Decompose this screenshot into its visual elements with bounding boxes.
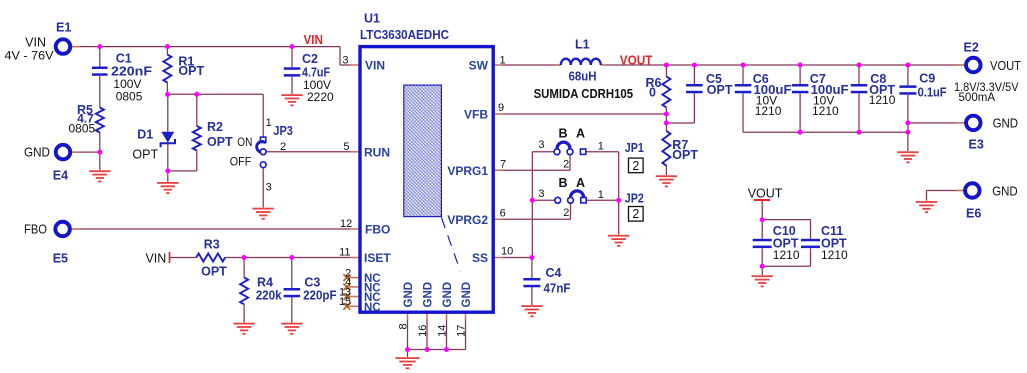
capacitor C5 OPT <box>686 72 733 97</box>
capacitor C1 220nF <box>92 52 152 104</box>
capacitor C9 0.1uF <box>899 71 947 99</box>
pin stub NC pin 15 with no-connect X <box>345 305 360 307</box>
junction JP2 pin3 net <box>530 198 535 203</box>
pin stub VPRG2 pin 6 <box>493 218 503 220</box>
svg-text:17: 17 <box>455 325 467 337</box>
svg-text:OPT: OPT <box>132 147 158 161</box>
wire C3 column <box>291 258 293 289</box>
wire VPRG2 pin 6 to JP2 pin 2 <box>502 218 571 220</box>
svg-text:C1: C1 <box>116 52 132 66</box>
wire VOUT rail L1 to E2 <box>601 64 967 66</box>
ground at E6 <box>916 201 937 203</box>
junction VOUT rail at C5 <box>692 63 697 68</box>
svg-text:220pF: 220pF <box>303 288 337 302</box>
wire C10/C11 top rail <box>762 219 810 221</box>
svg-text:E6: E6 <box>966 207 981 221</box>
wire D1 cathode to bottom rail <box>167 143 169 171</box>
svg-text:1210: 1210 <box>773 248 800 262</box>
svg-text:VIN: VIN <box>365 59 385 73</box>
svg-text:JP3: JP3 <box>273 124 293 138</box>
junction bus at C7 <box>798 130 803 135</box>
svg-text:E2: E2 <box>964 41 979 55</box>
svg-text:SW: SW <box>469 59 489 73</box>
terminal E4 GND <box>24 145 70 183</box>
svg-text:6: 6 <box>500 207 506 219</box>
U1 exposed pad (hatched) <box>404 85 461 271</box>
svg-text:500mA: 500mA <box>959 92 996 104</box>
ground at C4 <box>521 305 542 307</box>
svg-text:A: A <box>576 127 585 141</box>
terminal E3 GND <box>966 116 1018 152</box>
svg-text:SUMIDA CDRH105: SUMIDA CDRH105 <box>534 87 634 101</box>
svg-text:3: 3 <box>538 139 544 151</box>
jumper JP3 RUN select <box>230 117 293 193</box>
wire R6 bottom / R7 top <box>665 108 667 131</box>
net port VIN at R3 <box>145 251 169 265</box>
svg-text:OPT: OPT <box>207 135 233 149</box>
svg-text:SS: SS <box>472 251 488 265</box>
svg-text:2: 2 <box>632 207 639 221</box>
svg-text:68uH: 68uH <box>569 69 597 83</box>
wire GND pin 14 to bus <box>446 319 448 350</box>
junction VIN rail at C2 <box>290 44 295 49</box>
svg-text:GND: GND <box>992 183 1018 198</box>
junction C9 at E3 wire <box>905 120 910 125</box>
capacitor C3 220pF <box>284 276 337 303</box>
capacitor C10 OPT <box>753 224 800 262</box>
pin stub GND pin 17 <box>465 312 467 320</box>
U1 pin numbers <box>339 54 513 337</box>
pin stub VPRG1 pin 7 <box>493 169 503 171</box>
junction VOUT rail at C6 <box>741 63 746 68</box>
jumper JP1 VPRG1 select <box>538 127 643 171</box>
svg-text:GND: GND <box>993 116 1019 131</box>
pin stub GND pin 14 <box>446 312 448 320</box>
svg-text:VPRG2: VPRG2 <box>447 213 488 227</box>
svg-text:OFF: OFF <box>230 154 252 168</box>
wire E5 to FBO pin 12 <box>70 228 351 230</box>
svg-text:OPT: OPT <box>672 148 698 162</box>
junction C10 bottom <box>760 264 765 269</box>
wire C2 top to VIN rail <box>291 47 293 68</box>
svg-text:2: 2 <box>563 207 569 219</box>
wire C5 bottom to R6/R7 node <box>666 122 694 124</box>
ground at output bus <box>897 151 918 153</box>
terminal E5 FBO <box>24 222 70 266</box>
pin stub GND pin 8 <box>407 312 409 320</box>
svg-text:A: A <box>576 176 585 190</box>
junction SS at C4 <box>529 255 534 260</box>
svg-text:1: 1 <box>500 54 506 66</box>
wire bottom rail D1-R2 <box>168 170 197 172</box>
ground at JP1/JP2 pin 1 <box>608 235 629 237</box>
wire R1 bottom to sub-rail <box>166 83 168 95</box>
wire SW pin 1 to L1 <box>502 64 561 66</box>
svg-text:4V - 76V: 4V - 76V <box>5 49 54 63</box>
svg-text:3: 3 <box>342 54 348 66</box>
junction GND bus pin 8 <box>405 347 410 352</box>
junction bus at C9 <box>905 130 910 135</box>
svg-text:1: 1 <box>598 189 604 201</box>
svg-text:15: 15 <box>339 296 351 308</box>
svg-text:RUN: RUN <box>364 145 390 159</box>
svg-text:OPT: OPT <box>707 83 733 97</box>
wire E6 to ground <box>927 190 967 192</box>
pin stub NC pin 13 with no-connect X <box>345 296 360 298</box>
U1 pin names and numbers <box>364 59 489 314</box>
svg-text:1210: 1210 <box>821 248 848 262</box>
svg-text:ON: ON <box>237 135 252 149</box>
diode D1 zener OPT <box>132 127 175 161</box>
pin stub L1 leads <box>556 64 561 66</box>
svg-text:14: 14 <box>436 325 448 337</box>
wire JP1 pin 1 to ground net <box>586 151 619 153</box>
wire C8 column <box>858 65 860 84</box>
wire JP2 pin 3 to select net <box>532 199 555 201</box>
svg-text:OPT: OPT <box>201 264 227 278</box>
svg-text:GND: GND <box>442 282 454 308</box>
svg-text:3: 3 <box>538 188 544 200</box>
wire R2 bottom to bottom rail <box>196 151 198 171</box>
wire SS pin 10 to C4 <box>502 257 532 259</box>
svg-text:B: B <box>559 127 568 141</box>
terminal E2 VOUT <box>954 41 1021 104</box>
ground at R7 <box>656 175 677 177</box>
wire R6 top <box>665 65 667 76</box>
capacitor C4 47nF <box>523 266 570 295</box>
power tap VOUT at C10 <box>748 187 783 201</box>
svg-text:VIN: VIN <box>145 251 166 265</box>
svg-text:B: B <box>559 176 568 190</box>
jumper JP2 position box 2 <box>629 207 644 222</box>
junction GND bus pin 14 <box>444 347 449 352</box>
pin stub FBO pin 12 <box>350 228 360 230</box>
wire VPRG1 pin 7 to JP1 pin 2 <box>502 169 570 171</box>
junction VOUT rail at R6 <box>664 63 669 68</box>
wire VIN rail from E1 to IC pin 3 <box>70 46 340 48</box>
svg-text:FBO: FBO <box>24 223 47 237</box>
svg-text:VPRG1: VPRG1 <box>447 164 488 178</box>
svg-text:R2: R2 <box>207 120 223 134</box>
wire C4 column <box>531 258 533 279</box>
wire VOUT power tap to C10/C11 <box>761 201 763 220</box>
pin stub RUN pin 5 <box>350 151 360 153</box>
ground at C3 <box>281 323 302 325</box>
wire IC ground bus <box>408 349 466 351</box>
ground at C10/C11 <box>752 275 773 277</box>
wire R1 top to VIN rail <box>166 47 168 55</box>
svg-text:C2: C2 <box>302 52 318 66</box>
svg-text:7: 7 <box>500 158 506 170</box>
junction VOUT rail at C8 <box>857 63 862 68</box>
junction E4 node <box>97 150 102 155</box>
svg-text:47nF: 47nF <box>544 281 571 295</box>
inductor L1 68uH <box>534 38 634 101</box>
resistor R3 OPT <box>196 238 227 279</box>
svg-text:1210: 1210 <box>755 104 782 118</box>
wire C2 bottom to ground <box>291 77 293 94</box>
svg-text:10: 10 <box>501 246 513 258</box>
svg-text:E1: E1 <box>56 21 71 35</box>
pin stub ISET pin 11 <box>350 257 360 259</box>
terminal E1 VIN <box>5 21 72 63</box>
junction sub-rail at R2 <box>194 92 199 97</box>
svg-text:2: 2 <box>632 159 639 173</box>
ground at C2 <box>281 94 302 96</box>
svg-text:R3: R3 <box>204 238 220 252</box>
ground at U1 GND pins <box>396 357 420 359</box>
svg-text:GND: GND <box>24 146 50 160</box>
wire JP2 pin 1 to ground <box>587 199 619 201</box>
wire VIN port to R3 <box>170 257 197 259</box>
svg-text:0805: 0805 <box>116 89 143 103</box>
svg-text:C4: C4 <box>546 266 562 280</box>
wire C10/C11 bottom rail to ground <box>762 265 810 267</box>
wire VFB pin 9 to R6 bottom <box>502 113 666 115</box>
pin stub terminals <box>70 46 80 48</box>
svg-text:11: 11 <box>339 247 350 259</box>
svg-text:1210: 1210 <box>812 104 839 118</box>
junction VOUT rail at C9 <box>905 63 910 68</box>
svg-text:LTC3630AEDHC: LTC3630AEDHC <box>360 28 449 42</box>
svg-text:NC: NC <box>364 302 381 314</box>
ground at D1/R2 node <box>157 182 178 184</box>
svg-text:FBO: FBO <box>365 223 390 237</box>
svg-text:8: 8 <box>397 323 409 329</box>
junction sub-rail at D1 <box>165 92 170 97</box>
wire GND pin 17 to bus <box>465 319 467 350</box>
wire C5 column <box>693 65 695 84</box>
wire R5 bottom to E4 node <box>99 133 101 153</box>
junction VIN rail at R1 <box>165 44 170 49</box>
wire C11 column <box>810 220 812 239</box>
wire C9 column <box>907 65 909 85</box>
wire C10 column <box>761 220 763 239</box>
svg-text:0805: 0805 <box>68 122 95 136</box>
svg-text:VFB: VFB <box>464 108 488 122</box>
svg-text:VOUT: VOUT <box>620 54 653 68</box>
wire sub-rail R1/D1/R2 to JP3 pin 1 <box>167 93 263 95</box>
svg-text:ISET: ISET <box>364 251 391 265</box>
svg-text:9: 9 <box>498 102 504 114</box>
wire R4 column <box>243 258 245 278</box>
wire C9 node to E3 GND terminal <box>908 122 966 124</box>
pin stub SS pin 10 <box>493 257 503 259</box>
svg-text:D1: D1 <box>137 127 153 141</box>
junction C10 top <box>760 217 765 222</box>
capacitor C6 100uF <box>735 72 792 118</box>
junction JP2 pin1 ground <box>616 198 621 203</box>
op IC U1 LTC3630AEDHC body <box>360 12 493 313</box>
wire JP3 pin 2 to RUN pin 5 <box>266 151 351 153</box>
resistor R5 4.7 <box>68 103 103 136</box>
wire R7 bottom to ground <box>665 166 667 175</box>
wire R3 to ISET pin 11 <box>225 257 351 259</box>
svg-text:U1: U1 <box>364 12 380 26</box>
wire E4 to GND node <box>70 151 100 153</box>
terminal E6 GND <box>965 183 1018 220</box>
resistor R4 220k <box>240 276 282 305</box>
wire JP3 pin 3 to ground <box>262 168 264 208</box>
wire C1 bottom to R5 top <box>99 76 101 108</box>
svg-text:E4: E4 <box>53 169 68 183</box>
svg-text:0.1uF: 0.1uF <box>918 85 947 99</box>
svg-text:VIN: VIN <box>304 33 324 47</box>
svg-text:2: 2 <box>280 141 286 153</box>
capacitor C11 OPT <box>801 224 848 262</box>
pin stub VFB pin 9 <box>493 113 503 115</box>
pin stub NC pin 4 with no-connect X <box>345 286 360 288</box>
junction VOUT rail at C7 <box>798 63 803 68</box>
svg-text:2220: 2220 <box>307 90 334 104</box>
svg-text:0: 0 <box>649 86 656 100</box>
svg-text:1: 1 <box>266 117 272 129</box>
wire D1 anode from sub-rail <box>167 94 169 132</box>
junction R6 bottom VFB <box>664 112 669 117</box>
svg-text:VIN: VIN <box>25 36 46 50</box>
svg-text:JP1: JP1 <box>625 141 644 155</box>
junction GND bus pin 16 <box>425 347 430 352</box>
pin stub GND pin 16 <box>426 312 428 320</box>
resistor R7 OPT <box>662 131 698 166</box>
junction bus at C8 <box>857 130 862 135</box>
svg-text:OPT: OPT <box>178 64 204 78</box>
svg-text:1210: 1210 <box>869 93 896 107</box>
svg-text:2: 2 <box>563 158 569 170</box>
resistor R2 OPT <box>193 120 233 151</box>
svg-text:16: 16 <box>417 325 429 337</box>
wire GND pin 8 to bus <box>407 319 409 350</box>
junction R7 top at C5 <box>664 121 669 126</box>
svg-text:5: 5 <box>343 141 349 153</box>
jumper JP2 VPRG2 select <box>538 176 643 219</box>
jumper JP1 position box 2 <box>629 158 644 173</box>
svg-text:GND: GND <box>461 282 473 308</box>
svg-text:C9: C9 <box>919 71 935 85</box>
svg-text:VOUT: VOUT <box>990 58 1021 73</box>
junction D1 bottom <box>165 168 170 173</box>
wire JP1 pin 3 to select net <box>532 151 556 153</box>
resistor R1 OPT <box>163 54 204 82</box>
capacitor C2 4.7uF <box>284 52 334 104</box>
wire GND pin 16 to bus <box>426 319 428 350</box>
resistor R6 0 <box>646 76 671 108</box>
junction VIN rail at C1 <box>97 44 102 49</box>
svg-text:3: 3 <box>266 181 272 193</box>
wire R2 top from sub-rail <box>196 94 198 126</box>
ground at C1/R5/E4 node <box>89 170 110 172</box>
pin stub VIN pin 3 <box>350 64 360 66</box>
pin stub NC pin 2 with no-connect X <box>345 277 360 279</box>
ground at R4 <box>233 323 254 325</box>
capacitor C7 100uF <box>792 72 849 118</box>
svg-text:GND: GND <box>422 282 434 308</box>
svg-text:220k: 220k <box>256 288 282 302</box>
svg-text:VOUT: VOUT <box>748 187 783 201</box>
svg-text:JP2: JP2 <box>625 191 644 205</box>
svg-text:E3: E3 <box>969 138 984 152</box>
svg-text:GND: GND <box>403 282 415 308</box>
svg-text:1: 1 <box>598 141 604 153</box>
wire C7 column <box>799 65 801 84</box>
wire C1 top to VIN rail <box>99 47 101 67</box>
pin stub SW pin 1 <box>493 64 503 66</box>
svg-text:L1: L1 <box>575 38 590 52</box>
svg-text:12: 12 <box>340 218 352 230</box>
svg-text:E5: E5 <box>53 252 68 266</box>
capacitor C8 OPT <box>851 72 896 107</box>
wire output ground bus C6-C9 <box>743 131 908 133</box>
ground at JP3 pin 3 <box>253 208 274 210</box>
junction ISET at C3 <box>289 255 294 260</box>
junction ISET at R4 <box>242 255 247 260</box>
wire C6 column <box>742 65 744 84</box>
